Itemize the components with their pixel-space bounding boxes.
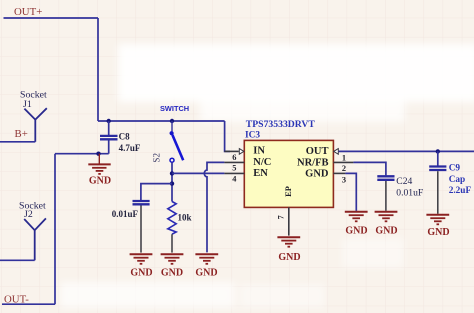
junction EN tee bbox=[170, 171, 174, 175]
svg-text:C24: C24 bbox=[396, 176, 412, 187]
ground below EP bbox=[277, 237, 300, 247]
svg-text:GND: GND bbox=[375, 225, 397, 236]
wire OUT+ top horizontal bbox=[4, 17, 99, 19]
svg-text:Cap: Cap bbox=[449, 175, 466, 185]
wire C8 bottom to left rail bbox=[55, 153, 109, 155]
ground below C24 bbox=[375, 212, 398, 222]
resistor lower stub bbox=[171, 234, 173, 252]
pin 4 stub bbox=[224, 172, 244, 174]
svg-text:S2: S2 bbox=[151, 153, 161, 163]
wire B+ bbox=[0, 141, 35, 143]
socket J1 bbox=[24, 108, 46, 142]
svg-text:GND: GND bbox=[305, 169, 329, 180]
op-amp/regulator body IC3 bbox=[244, 140, 333, 207]
wire J2 to left edge bbox=[0, 259, 35, 261]
wire EN bbox=[172, 172, 224, 174]
resistor 10k bbox=[168, 202, 176, 235]
svg-text:B+: B+ bbox=[15, 128, 28, 140]
svg-text:7: 7 bbox=[277, 215, 286, 219]
svg-text:3: 3 bbox=[342, 175, 346, 184]
wire OUT- bbox=[2, 303, 55, 305]
wire cap branch bbox=[141, 184, 172, 201]
pin 1 arrow bbox=[334, 149, 339, 155]
svg-text:10k: 10k bbox=[178, 213, 192, 223]
ground below pin 3 bbox=[345, 212, 368, 222]
capacitor 0.01uF plates bbox=[133, 201, 150, 253]
wire OUT+ to switch and IC bbox=[98, 120, 225, 122]
svg-text:IN: IN bbox=[253, 146, 265, 157]
ground below C9 bbox=[426, 215, 449, 225]
pin 2 stub bbox=[333, 161, 353, 163]
svg-text:2: 2 bbox=[342, 164, 346, 173]
svg-text:EN: EN bbox=[253, 168, 268, 179]
ground below C8 bbox=[88, 154, 110, 174]
svg-text:J1: J1 bbox=[23, 99, 32, 110]
svg-text:OUT+: OUT+ bbox=[14, 6, 42, 18]
wire pin3 to ground bbox=[345, 173, 356, 211]
switch S2 bbox=[170, 121, 184, 162]
svg-text:NR/FB: NR/FB bbox=[297, 157, 329, 168]
svg-text:GND: GND bbox=[195, 268, 217, 279]
left rail vertical wire bbox=[54, 154, 56, 305]
wire switch bottom down bbox=[171, 162, 173, 201]
ground below 0.01uF bbox=[130, 254, 153, 263]
pin 1 wire OUT net bbox=[339, 150, 474, 152]
junction switch top bbox=[170, 119, 174, 123]
pin 6 arrow bbox=[239, 149, 244, 155]
junction C8 top bbox=[107, 119, 111, 123]
svg-text:J2: J2 bbox=[24, 209, 33, 220]
junction cap tee bbox=[170, 181, 174, 185]
svg-text:2.2uF: 2.2uF bbox=[449, 186, 472, 196]
svg-text:EP: EP bbox=[284, 186, 293, 197]
capacitor C24 bbox=[377, 176, 394, 211]
svg-text:SWITCH: SWITCH bbox=[160, 104, 189, 113]
pin 3 stub bbox=[333, 172, 345, 174]
wire OUT+ vertical down bbox=[97, 18, 99, 121]
svg-text:0.01uF: 0.01uF bbox=[396, 187, 423, 198]
svg-text:TPS73533DRVT: TPS73533DRVT bbox=[246, 119, 316, 130]
svg-text:OUT: OUT bbox=[306, 146, 329, 157]
svg-text:N/C: N/C bbox=[253, 157, 271, 168]
svg-text:GND: GND bbox=[345, 225, 367, 236]
svg-text:1: 1 bbox=[342, 154, 346, 163]
svg-text:GND: GND bbox=[161, 268, 183, 279]
svg-text:6: 6 bbox=[232, 153, 236, 162]
pin 7 stub EP bbox=[288, 207, 290, 235]
wire N/C branch with hop bbox=[204, 162, 224, 252]
svg-text:4.7uF: 4.7uF bbox=[119, 143, 141, 153]
pin 5 stub bbox=[224, 161, 244, 163]
svg-text:GND: GND bbox=[427, 227, 449, 238]
wire to IN pin bbox=[225, 121, 230, 151]
capacitor C8 bbox=[100, 121, 118, 154]
svg-text:C9: C9 bbox=[449, 164, 461, 174]
svg-text:C8: C8 bbox=[119, 132, 130, 142]
svg-text:0.01uF: 0.01uF bbox=[112, 209, 139, 219]
wire pin2 to C24 bbox=[353, 162, 386, 175]
ground below 10k bbox=[161, 254, 184, 263]
ground below N/C wire bbox=[195, 254, 218, 263]
pin 6 stub bbox=[224, 150, 238, 152]
svg-text:IC3: IC3 bbox=[245, 130, 260, 140]
svg-text:5: 5 bbox=[232, 164, 236, 173]
capacitor C9 bbox=[429, 151, 446, 213]
socket J2 bbox=[24, 218, 46, 260]
svg-text:GND: GND bbox=[278, 252, 300, 263]
svg-text:GND: GND bbox=[130, 268, 152, 279]
junction GND tap bbox=[96, 152, 100, 156]
junction C9 bbox=[436, 149, 440, 153]
svg-text:GND: GND bbox=[89, 176, 111, 187]
